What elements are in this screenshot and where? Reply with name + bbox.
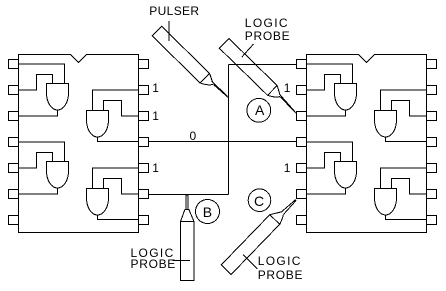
node A circle bbox=[247, 98, 271, 122]
IC U2 pin 7 bbox=[297, 216, 307, 225]
IC U2 pin 1 bbox=[297, 60, 307, 69]
IC U1 pin 11 bbox=[139, 138, 149, 147]
gate U1A bbox=[47, 84, 69, 111]
gate U1C bbox=[47, 162, 69, 189]
logic probe C body bbox=[221, 215, 280, 275]
gate U1B bbox=[87, 111, 109, 138]
wire from corner to U2 pin 1 bbox=[229, 64, 297, 66]
wire U2D output to pin 8 bbox=[386, 215, 427, 220]
logic probe A needle tip bbox=[279, 94, 296, 114]
node B letter bbox=[203, 205, 212, 219]
logic probe C cone bbox=[270, 212, 284, 224]
logic probe B label pointer bbox=[173, 260, 191, 262]
gate U2A bbox=[335, 84, 357, 111]
IC U1 pin 3 bbox=[9, 112, 19, 121]
IC U1 body bbox=[19, 55, 139, 233]
logic probe A body bbox=[219, 39, 277, 96]
logic probe B body bbox=[181, 222, 195, 281]
label logic level 1 at U2 pin 2 bbox=[284, 81, 291, 95]
IC U2 pin 4 bbox=[297, 138, 307, 147]
node C letter bbox=[254, 194, 264, 208]
IC U2 pin 11 bbox=[427, 138, 437, 147]
wire U1A input from pin 2 bbox=[19, 75, 53, 91]
gate U2D bbox=[375, 189, 397, 216]
pulser cone bbox=[200, 73, 213, 84]
IC U1 pin 7 bbox=[9, 216, 19, 225]
wire U2D input from pin 10 bbox=[381, 168, 427, 189]
IC U2 pin 2 bbox=[297, 86, 307, 95]
wire U2C input from pin 5 bbox=[307, 153, 341, 169]
node B circle bbox=[196, 200, 220, 224]
wire U1C input from pin 4 bbox=[19, 142, 65, 162]
wire U1D input from pin 10 bbox=[93, 168, 139, 189]
IC U1 pin 5 bbox=[9, 164, 19, 173]
IC U2 pin 12 bbox=[427, 112, 437, 121]
label LOGIC PROBE A bbox=[245, 16, 289, 30]
logic probe A label pointer bbox=[242, 44, 254, 57]
IC U2 pin 5 bbox=[297, 164, 307, 173]
label LOGIC PROBE C bbox=[258, 254, 302, 268]
logic probe A cone bbox=[268, 86, 280, 98]
label logic level 1 at U1 pin 10 bbox=[152, 161, 159, 175]
IC U2 pin 3 bbox=[297, 112, 307, 121]
node A letter bbox=[255, 103, 264, 117]
node C circle bbox=[248, 189, 271, 212]
logic probe B needle tip bbox=[186, 195, 188, 210]
IC U2 pin 8 bbox=[427, 216, 437, 225]
wire U1A input from pin 1 bbox=[19, 64, 65, 84]
wire U1B input from pin 12 bbox=[104, 101, 139, 117]
wire U2B input from pin 12 bbox=[392, 101, 427, 117]
gate U2B bbox=[375, 111, 397, 138]
pulser body bbox=[152, 26, 209, 83]
IC U1 pin 9 bbox=[139, 190, 149, 199]
IC U1 pin 10 bbox=[139, 164, 149, 173]
wire U1B output to pin 11 bbox=[98, 137, 139, 142]
wire U1C output to pin 6 bbox=[19, 188, 58, 194]
wire U2D input from pin 9 bbox=[392, 179, 427, 195]
IC U1 pin 4 bbox=[9, 138, 19, 147]
wire net 0 from U1 pin 11 to U2 pin 4 bbox=[149, 141, 297, 143]
IC U2 pin 13 bbox=[427, 86, 437, 95]
wire U2B input from pin 13 bbox=[381, 90, 427, 111]
logic probe C label pointer bbox=[243, 255, 257, 269]
logic probe C needle tip bbox=[281, 200, 296, 215]
IC U2 pin 14 bbox=[427, 60, 437, 69]
IC U1 pin 6 bbox=[9, 190, 19, 199]
label PULSER bbox=[149, 4, 199, 18]
wire U1B input from pin 13 bbox=[93, 90, 139, 111]
label logic level 1 at U1 pin 13 bbox=[152, 81, 159, 95]
IC U1 pin 8 bbox=[139, 216, 149, 225]
wire U1D input from pin 9 bbox=[104, 179, 139, 195]
logic probe B cone bbox=[181, 210, 195, 222]
IC U2 body bbox=[307, 55, 427, 233]
IC U2 pin 10 bbox=[427, 164, 437, 173]
wire U1D output to pin 8 bbox=[98, 215, 139, 220]
IC U1 pin 14 bbox=[139, 60, 149, 69]
wire from U1 pin 6 to vertical branch bbox=[149, 194, 229, 196]
IC U1 pin 13 bbox=[139, 86, 149, 95]
wire U2C input from pin 4 bbox=[307, 142, 353, 162]
IC U2 pin 6 bbox=[297, 190, 307, 199]
IC U1 pin 2 bbox=[9, 86, 19, 95]
pulser label pointer bbox=[168, 21, 170, 41]
IC U1 pin 1 bbox=[9, 60, 19, 69]
wire U2C output to pin 6 bbox=[307, 188, 346, 194]
gate U2C bbox=[335, 162, 357, 189]
wire U1A output to pin 3 bbox=[19, 110, 58, 116]
wire U2A output to pin 3 bbox=[307, 110, 346, 116]
label LOGIC PROBE B bbox=[131, 246, 175, 260]
wire U2A input from pin 1 bbox=[307, 64, 353, 84]
pulser needle tip bbox=[212, 81, 228, 97]
IC U1 pin 12 bbox=[139, 112, 149, 121]
wire vertical branch bbox=[228, 65, 230, 195]
label logic level 1 at U2 pin 5 bbox=[284, 161, 291, 175]
IC U2 pin 9 bbox=[427, 190, 437, 199]
label logic level 0 on net bbox=[190, 129, 197, 143]
wire U1C input from pin 5 bbox=[19, 153, 53, 169]
gate U1D bbox=[87, 189, 109, 216]
label logic level 1 at U1 pin 12 bbox=[152, 109, 159, 123]
wire U2A input from pin 2 bbox=[307, 75, 341, 91]
wire U2B output to pin 11 bbox=[386, 137, 427, 142]
